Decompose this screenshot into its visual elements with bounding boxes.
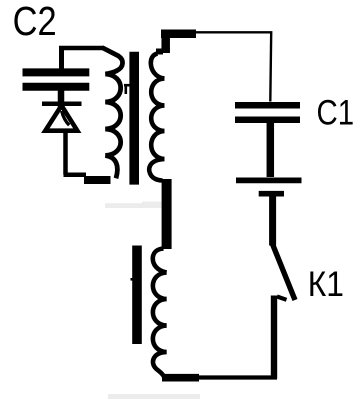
svg-text:C1: C1 [317,93,355,132]
svg-text:К1: К1 [308,266,344,305]
svg-text:C2: C2 [13,0,57,45]
